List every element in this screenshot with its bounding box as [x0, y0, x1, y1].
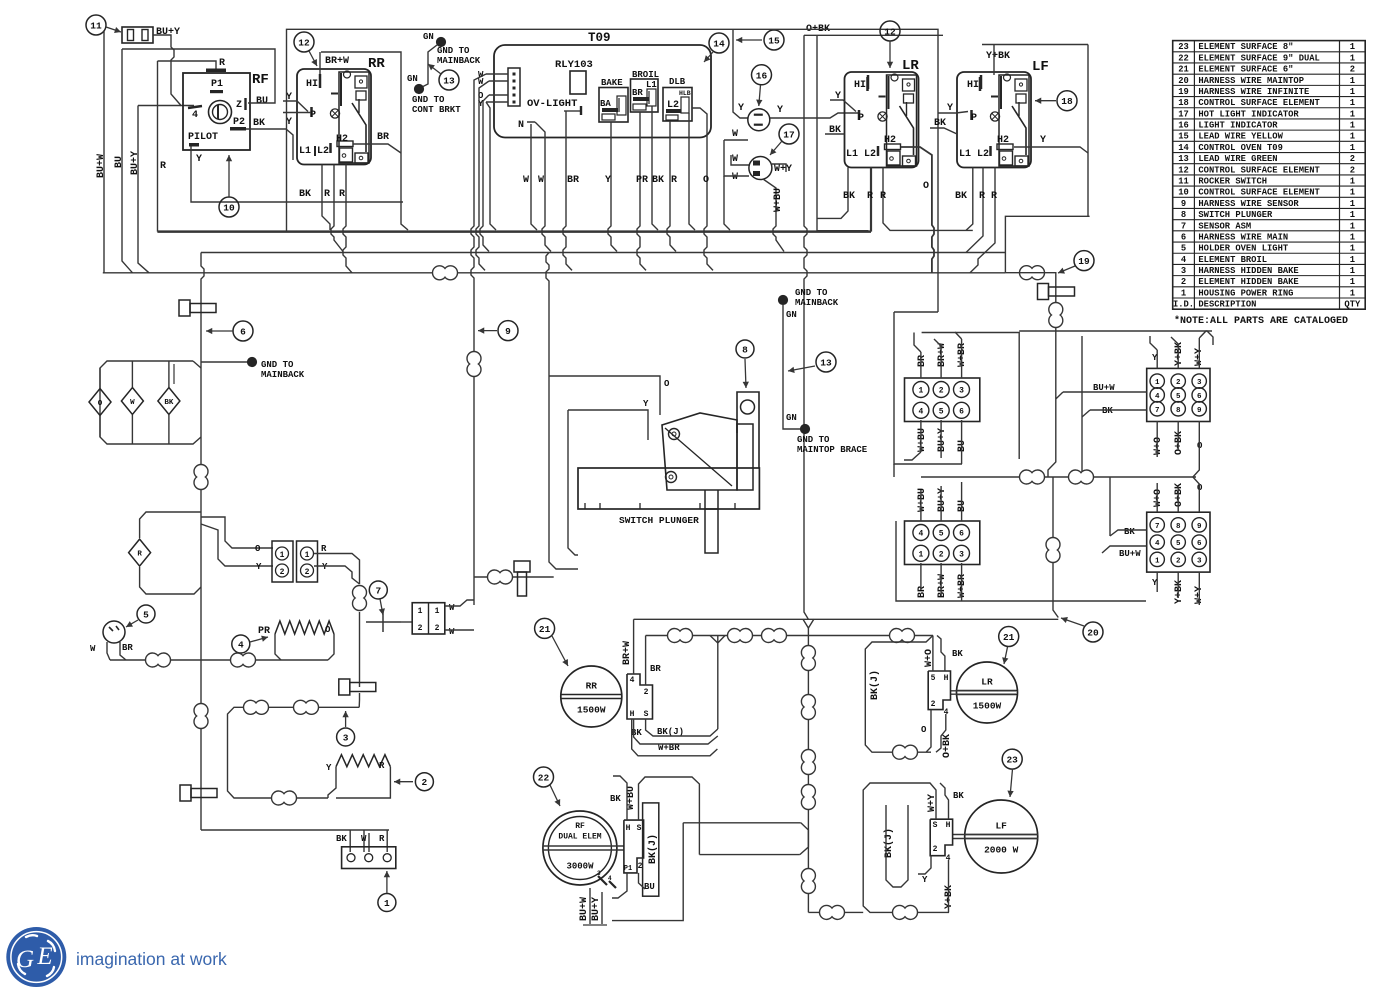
svg-text:BU: BU	[957, 440, 968, 452]
svg-text:23: 23	[1006, 755, 1018, 766]
svg-text:GND TO: GND TO	[795, 288, 828, 298]
svg-text:BR+W: BR+W	[325, 56, 349, 67]
element RR 1500W	[561, 666, 622, 727]
hidden bake coil Y R	[336, 755, 390, 767]
svg-text:6: 6	[1197, 540, 1202, 548]
callout 13	[439, 70, 459, 90]
infinite switch RR	[297, 69, 371, 165]
svg-text:Y+BK: Y+BK	[944, 885, 955, 909]
svg-text:7: 7	[1181, 221, 1186, 231]
svg-text:6: 6	[1181, 232, 1186, 242]
sensor circuit (item 7)	[369, 581, 387, 599]
svg-text:4: 4	[1155, 393, 1160, 401]
svg-text:2: 2	[638, 862, 643, 871]
svg-text:MAINTOP BRACE: MAINTOP BRACE	[797, 445, 868, 455]
svg-text:20: 20	[1087, 628, 1099, 639]
svg-text:HOLDER OVEN LIGHT: HOLDER OVEN LIGHT	[1198, 244, 1288, 254]
svg-text:L2: L2	[317, 146, 329, 157]
control RR frame	[321, 52, 408, 230]
svg-text:6: 6	[240, 327, 246, 338]
wires below LR	[817, 168, 848, 219]
RF loop to trunk	[683, 822, 801, 824]
svg-text:PR: PR	[258, 626, 270, 637]
svg-text:BR: BR	[377, 132, 389, 143]
wires below LF	[966, 168, 973, 231]
LR element connector	[928, 671, 950, 710]
svg-text:Y: Y	[738, 103, 744, 114]
callout 23	[1002, 749, 1022, 769]
svg-text:W: W	[732, 154, 738, 165]
wire BU vertical	[122, 49, 133, 273]
svg-text:22: 22	[1178, 53, 1189, 63]
splice on trunk	[194, 464, 208, 489]
svg-text:1: 1	[1155, 379, 1160, 387]
svg-text:2: 2	[418, 624, 423, 633]
svg-text:O: O	[255, 544, 261, 554]
svg-text:P2: P2	[233, 117, 245, 128]
parts list table	[1173, 41, 1366, 310]
svg-text:GN: GN	[786, 310, 797, 320]
svg-text:HOUSING POWER RING: HOUSING POWER RING	[1198, 288, 1293, 298]
R diamond branch	[140, 512, 201, 538]
GE logo	[6, 927, 66, 987]
svg-text:ELEMENT HIDDEN BAKE: ELEMENT HIDDEN BAKE	[1198, 277, 1298, 287]
svg-text:1: 1	[1350, 109, 1355, 119]
svg-text:1: 1	[1350, 244, 1355, 254]
svg-text:BR: BR	[567, 175, 579, 186]
wires W W O Y left of T09	[486, 73, 508, 75]
svg-text:S: S	[933, 821, 938, 830]
wire from lamp17 right	[772, 164, 786, 172]
svg-text:HI: HI	[854, 80, 866, 91]
svg-text:BR: BR	[650, 664, 661, 674]
svg-text:BK: BK	[631, 728, 642, 738]
svg-text:BA: BA	[600, 99, 611, 109]
top 9-pin connector	[1147, 368, 1210, 421]
svg-text:Y: Y	[643, 399, 649, 409]
svg-text:DESCRIPTION: DESCRIPTION	[1198, 300, 1256, 310]
svg-text:BK: BK	[955, 191, 967, 202]
svg-text:W: W	[449, 627, 455, 637]
svg-text:5: 5	[939, 407, 944, 416]
svg-text:Y: Y	[1040, 135, 1046, 146]
sensor asm block	[412, 603, 445, 634]
diamond O	[99, 368, 101, 388]
svg-text:BAKE: BAKE	[601, 78, 623, 88]
svg-text:R: R	[991, 191, 997, 202]
svg-text:DUAL ELEM: DUAL ELEM	[558, 833, 601, 842]
svg-text:1: 1	[1350, 255, 1355, 265]
wire to terminal strip: h707	[228, 707, 360, 798]
connector pair (lockout)	[201, 517, 273, 548]
svg-text:3: 3	[597, 870, 601, 877]
svg-text:3: 3	[959, 387, 964, 396]
callout 9	[498, 321, 518, 341]
hops on LF bottom	[892, 905, 917, 919]
mid bus y477	[921, 476, 1196, 478]
svg-text:BK(J): BK(J)	[883, 828, 895, 858]
svg-text:HARNESS WIRE INFINITE: HARNESS WIRE INFINITE	[1198, 87, 1309, 97]
svg-text:LF: LF	[1032, 59, 1049, 75]
callout 8	[736, 340, 754, 358]
callout 18	[1057, 91, 1077, 111]
svg-text:12: 12	[1178, 165, 1189, 175]
trunk bottom & terminal strip wires	[201, 829, 389, 831]
svg-text:1: 1	[280, 551, 285, 560]
wire BU to Z	[122, 49, 275, 103]
svg-text:BK: BK	[953, 791, 964, 801]
RF element connector	[624, 820, 644, 873]
svg-text:Y+BK: Y+BK	[986, 51, 1010, 62]
switch plunger base	[578, 468, 759, 509]
svg-text:10: 10	[1178, 188, 1189, 198]
broil coil	[275, 621, 334, 634]
elements trunk	[803, 619, 814, 628]
wire 20 drop	[1053, 477, 1058, 618]
svg-text:20: 20	[1178, 76, 1189, 86]
svg-text:21: 21	[1003, 632, 1015, 643]
svg-text:R: R	[379, 761, 385, 771]
svg-text:PR: PR	[636, 175, 648, 186]
callout 10	[219, 197, 239, 217]
svg-text:BR: BR	[122, 643, 133, 653]
lower-left frame	[893, 464, 895, 477]
svg-text:5: 5	[931, 674, 936, 683]
svg-text:LEAD WIRE GREEN: LEAD WIRE GREEN	[1198, 154, 1277, 164]
svg-text:3: 3	[1181, 266, 1186, 276]
svg-text:HARNESS WIRE SENSOR: HARNESS WIRE SENSOR	[1198, 199, 1299, 209]
callout 20	[1083, 622, 1103, 642]
svg-text:11: 11	[90, 21, 102, 32]
svg-text:4: 4	[918, 407, 923, 416]
svg-text:L2: L2	[977, 149, 989, 160]
svg-text:14: 14	[1178, 143, 1189, 153]
callout 12	[294, 32, 314, 52]
LF right frame / Y wire down	[982, 44, 1088, 46]
svg-text:17: 17	[1178, 109, 1189, 119]
svg-text:P1: P1	[211, 79, 223, 90]
svg-text:Z: Z	[236, 100, 242, 111]
svg-text:BK: BK	[336, 834, 347, 844]
bottom 9-pin connector	[1147, 512, 1210, 572]
svg-text:O+BK: O+BK	[942, 734, 953, 758]
svg-text:W+BU: W+BU	[773, 188, 784, 212]
ground GND TO MAINBACK (left)	[201, 361, 248, 363]
svg-text:BR: BR	[632, 88, 643, 98]
svg-text:BU: BU	[644, 882, 655, 892]
wire from 474 to plunger area	[474, 576, 554, 578]
svg-text:L1: L1	[959, 149, 971, 160]
svg-text:H2: H2	[336, 134, 348, 145]
svg-text:1: 1	[1155, 557, 1160, 565]
svg-text:CONTROL SURFACE ELEMENT: CONTROL SURFACE ELEMENT	[1198, 98, 1320, 108]
svg-text:RF: RF	[252, 72, 269, 88]
svg-text:R: R	[324, 189, 330, 200]
svg-text:R: R	[379, 834, 385, 844]
svg-text:8: 8	[1176, 523, 1181, 531]
svg-text:2: 2	[644, 688, 649, 697]
svg-text:1: 1	[918, 550, 923, 559]
svg-text:LR: LR	[902, 58, 919, 74]
svg-text:SWITCH PLUNGER: SWITCH PLUNGER	[619, 515, 699, 526]
svg-text:W+BR: W+BR	[957, 343, 968, 367]
svg-text:1: 1	[1350, 98, 1355, 108]
callout 13 (mid)	[816, 352, 836, 372]
svg-text:7: 7	[1155, 523, 1160, 531]
svg-text:Y: Y	[922, 875, 928, 885]
svg-text:1: 1	[1350, 132, 1355, 142]
knob	[209, 101, 232, 124]
svg-text:18: 18	[1061, 96, 1073, 107]
microswitch body	[662, 413, 737, 490]
svg-text:MAINBACK: MAINBACK	[437, 56, 481, 66]
svg-text:1500W: 1500W	[973, 701, 1002, 712]
svg-text:GND TO: GND TO	[797, 435, 830, 445]
svg-text:W+BU: W+BU	[917, 488, 928, 512]
outer frame top	[287, 29, 939, 312]
bolt on wire 19	[1038, 284, 1049, 300]
svg-text:LEAD WIRE YELLOW: LEAD WIRE YELLOW	[1198, 132, 1283, 142]
svg-text:ELEMENT SURFACE 9" DUAL: ELEMENT SURFACE 9" DUAL	[1198, 53, 1319, 63]
svg-text:E: E	[36, 943, 52, 970]
svg-text:RR: RR	[586, 681, 598, 692]
wire Y below BAKE	[608, 122, 617, 252]
wires right of connector pair	[314, 554, 360, 585]
svg-text:1: 1	[1350, 188, 1355, 198]
harness wire maintop (20)	[634, 618, 1059, 620]
svg-text:1: 1	[1350, 53, 1355, 63]
bolt on trunk (lower)	[180, 785, 191, 801]
svg-text:H2: H2	[884, 135, 896, 146]
svg-text:2: 2	[931, 700, 936, 709]
svg-text:W: W	[732, 129, 738, 140]
svg-text:4: 4	[630, 676, 635, 685]
svg-text:P: P	[971, 113, 977, 124]
svg-text:1: 1	[1350, 221, 1355, 231]
svg-text:21: 21	[1178, 65, 1189, 75]
svg-text:5: 5	[143, 610, 149, 621]
svg-text:LF: LF	[995, 821, 1007, 832]
svg-text:2: 2	[422, 777, 428, 788]
svg-text:1: 1	[1350, 42, 1355, 52]
svg-text:PILOT: PILOT	[188, 132, 218, 143]
svg-text:R: R	[339, 189, 345, 200]
RR element connector	[627, 674, 653, 719]
svg-text:9: 9	[505, 326, 511, 337]
svg-text:1: 1	[1350, 199, 1355, 209]
svg-text:W+BU: W+BU	[917, 428, 928, 452]
svg-text:ELEMENT BROIL: ELEMENT BROIL	[1198, 255, 1267, 265]
terminal P1	[206, 69, 226, 73]
svg-text:O+BK: O+BK	[1174, 483, 1185, 507]
trunk to LF frame	[808, 911, 863, 913]
svg-text:BK: BK	[299, 189, 311, 200]
svg-text:12: 12	[298, 38, 310, 49]
svg-text:3: 3	[343, 733, 349, 744]
svg-text:*NOTE:ALL PARTS ARE CATALOGED: *NOTE:ALL PARTS ARE CATALOGED	[1174, 315, 1348, 327]
svg-text:W+O: W+O	[1153, 489, 1164, 507]
wire Y+BK	[993, 61, 995, 75]
wires Y into P	[283, 101, 308, 112]
svg-text:6: 6	[959, 530, 964, 539]
svg-text:W: W	[90, 644, 96, 654]
svg-text:3000W: 3000W	[566, 862, 594, 872]
svg-text:BR: BR	[917, 586, 928, 598]
pilot wire	[191, 147, 403, 203]
svg-text:Y: Y	[322, 562, 328, 572]
svg-text:BU: BU	[957, 500, 968, 512]
svg-text:BK: BK	[952, 649, 963, 659]
svg-text:1: 1	[435, 607, 440, 616]
callout 15	[764, 30, 784, 50]
svg-text:HOT LIGHT INDICATOR: HOT LIGHT INDICATOR	[1198, 109, 1299, 119]
svg-text:BK: BK	[843, 191, 855, 202]
RF element terminals	[598, 876, 607, 885]
top 6-pin connector	[905, 378, 980, 422]
svg-text:SWITCH PLUNGER: SWITCH PLUNGER	[1198, 210, 1273, 220]
svg-text:BK: BK	[1102, 406, 1113, 416]
surface switch RF	[183, 73, 250, 150]
svg-text:P: P	[310, 110, 316, 121]
rocker switch (item 11)	[122, 27, 153, 43]
wire W+BU down	[763, 179, 784, 252]
svg-text:O+BK: O+BK	[1174, 431, 1185, 455]
svg-text:19: 19	[1078, 256, 1090, 267]
svg-text:BR+W: BR+W	[622, 641, 633, 665]
svg-text:12: 12	[884, 27, 896, 38]
svg-text:H: H	[630, 710, 635, 719]
svg-text:4: 4	[238, 640, 244, 651]
svg-text:HARNESS WIRE MAINTOP: HARNESS WIRE MAINTOP	[1198, 76, 1304, 86]
svg-text:GN: GN	[423, 32, 434, 42]
svg-text:Y: Y	[777, 105, 783, 116]
svg-text:10: 10	[223, 203, 235, 214]
wire BU+Y vertical	[138, 106, 149, 273]
svg-text:BK: BK	[610, 794, 621, 804]
svg-text:L1: L1	[846, 149, 858, 160]
diamond W	[131, 361, 133, 387]
trunk splice low	[194, 704, 208, 729]
svg-text:23: 23	[1178, 42, 1189, 52]
svg-text:14: 14	[713, 39, 725, 50]
callout 3	[337, 728, 355, 746]
hot light indicator (item 17)	[749, 157, 772, 180]
svg-text:1: 1	[305, 551, 310, 560]
svg-text:2: 2	[933, 845, 938, 854]
svg-text:2: 2	[280, 568, 285, 577]
svg-text:DLB: DLB	[669, 77, 686, 87]
svg-text:T09: T09	[588, 31, 611, 45]
svg-text:1: 1	[1350, 87, 1355, 97]
svg-text:15: 15	[768, 36, 780, 47]
wire 9 vertical	[471, 205, 474, 605]
svg-text:Y: Y	[256, 562, 262, 572]
svg-text:S: S	[644, 710, 649, 719]
bolt/hop near sensor bottom	[339, 679, 350, 695]
light indicator (item 16)	[748, 109, 770, 131]
bolt on trunk	[179, 300, 190, 316]
wires left of LR	[830, 100, 856, 112]
svg-text:GND TO: GND TO	[261, 360, 294, 370]
svg-text:W: W	[538, 175, 544, 186]
callout 6	[233, 321, 253, 341]
wire P2 to RR	[246, 129, 293, 160]
svg-text:RLY103: RLY103	[555, 59, 593, 71]
svg-text:BU+Y: BU+Y	[156, 27, 180, 38]
svg-text:imagination at work: imagination at work	[76, 949, 227, 969]
svg-text:BU+W: BU+W	[579, 897, 590, 921]
svg-text:Y+BK: Y+BK	[1174, 580, 1185, 604]
svg-text:W+O: W+O	[1153, 437, 1164, 455]
svg-text:O: O	[664, 379, 670, 389]
svg-text:1: 1	[418, 607, 423, 616]
wires sensor to trunk 474	[445, 600, 474, 606]
ground GND TO MAINBACK (top)	[436, 37, 445, 46]
callout 12 (LR)	[880, 21, 900, 41]
svg-text:4: 4	[192, 110, 198, 121]
svg-text:2: 2	[1181, 277, 1186, 287]
callout 14	[709, 33, 729, 53]
svg-text:13: 13	[1178, 154, 1189, 164]
svg-text:N: N	[518, 120, 524, 131]
svg-text:2000 W: 2000 W	[984, 845, 1019, 856]
svg-text:R: R	[219, 58, 225, 69]
svg-text:GN: GN	[407, 74, 418, 84]
svg-text:W+BR: W+BR	[957, 574, 968, 598]
svg-text:I.D.: I.D.	[1173, 300, 1194, 310]
svg-text:1500W: 1500W	[577, 705, 606, 716]
callout 19	[1074, 251, 1094, 271]
svg-text:6: 6	[1197, 393, 1202, 401]
switch plunger wiring loop O	[546, 253, 549, 377]
element LR 1500W	[957, 662, 1018, 723]
svg-text:7: 7	[375, 586, 381, 597]
harness main trunk	[201, 253, 204, 831]
svg-text:W: W	[523, 175, 529, 186]
svg-text:CONTROL SURFACE ELEMENT: CONTROL SURFACE ELEMENT	[1198, 188, 1320, 198]
svg-text:W: W	[130, 399, 135, 407]
ground GND TO CONT BRKT	[414, 84, 423, 93]
svg-text:21: 21	[539, 624, 551, 635]
svg-text:11: 11	[1178, 176, 1189, 186]
wire O+BK frame into bus	[817, 35, 868, 230]
svg-text:4: 4	[1181, 255, 1187, 265]
svg-text:H: H	[944, 674, 949, 683]
svg-text:9: 9	[1197, 407, 1202, 415]
svg-text:HARNESS WIRE MAIN: HARNESS WIRE MAIN	[1198, 232, 1288, 242]
wires below DLB / O wire	[667, 121, 676, 252]
LF element connector	[930, 819, 952, 856]
svg-text:HI: HI	[306, 79, 318, 90]
svg-text:RF: RF	[575, 822, 585, 831]
wire loop with diamonds	[100, 361, 201, 444]
right frame	[1019, 331, 1213, 345]
svg-text:3: 3	[959, 550, 964, 559]
wire from rocker to RF terminal 4	[153, 35, 194, 106]
wire R vertical	[157, 61, 159, 232]
callout 22	[534, 767, 554, 787]
svg-text:16: 16	[1178, 121, 1189, 131]
svg-text:R: R	[979, 191, 985, 202]
svg-text:P1: P1	[624, 865, 632, 873]
svg-text:BR+W: BR+W	[937, 343, 948, 367]
svg-text:BU+W: BU+W	[96, 154, 107, 178]
bus wire 2	[201, 252, 1005, 254]
diamond BK	[168, 361, 170, 387]
infinite switch LR	[845, 72, 919, 168]
svg-text:LR: LR	[981, 677, 993, 688]
svg-text:13: 13	[443, 76, 455, 87]
